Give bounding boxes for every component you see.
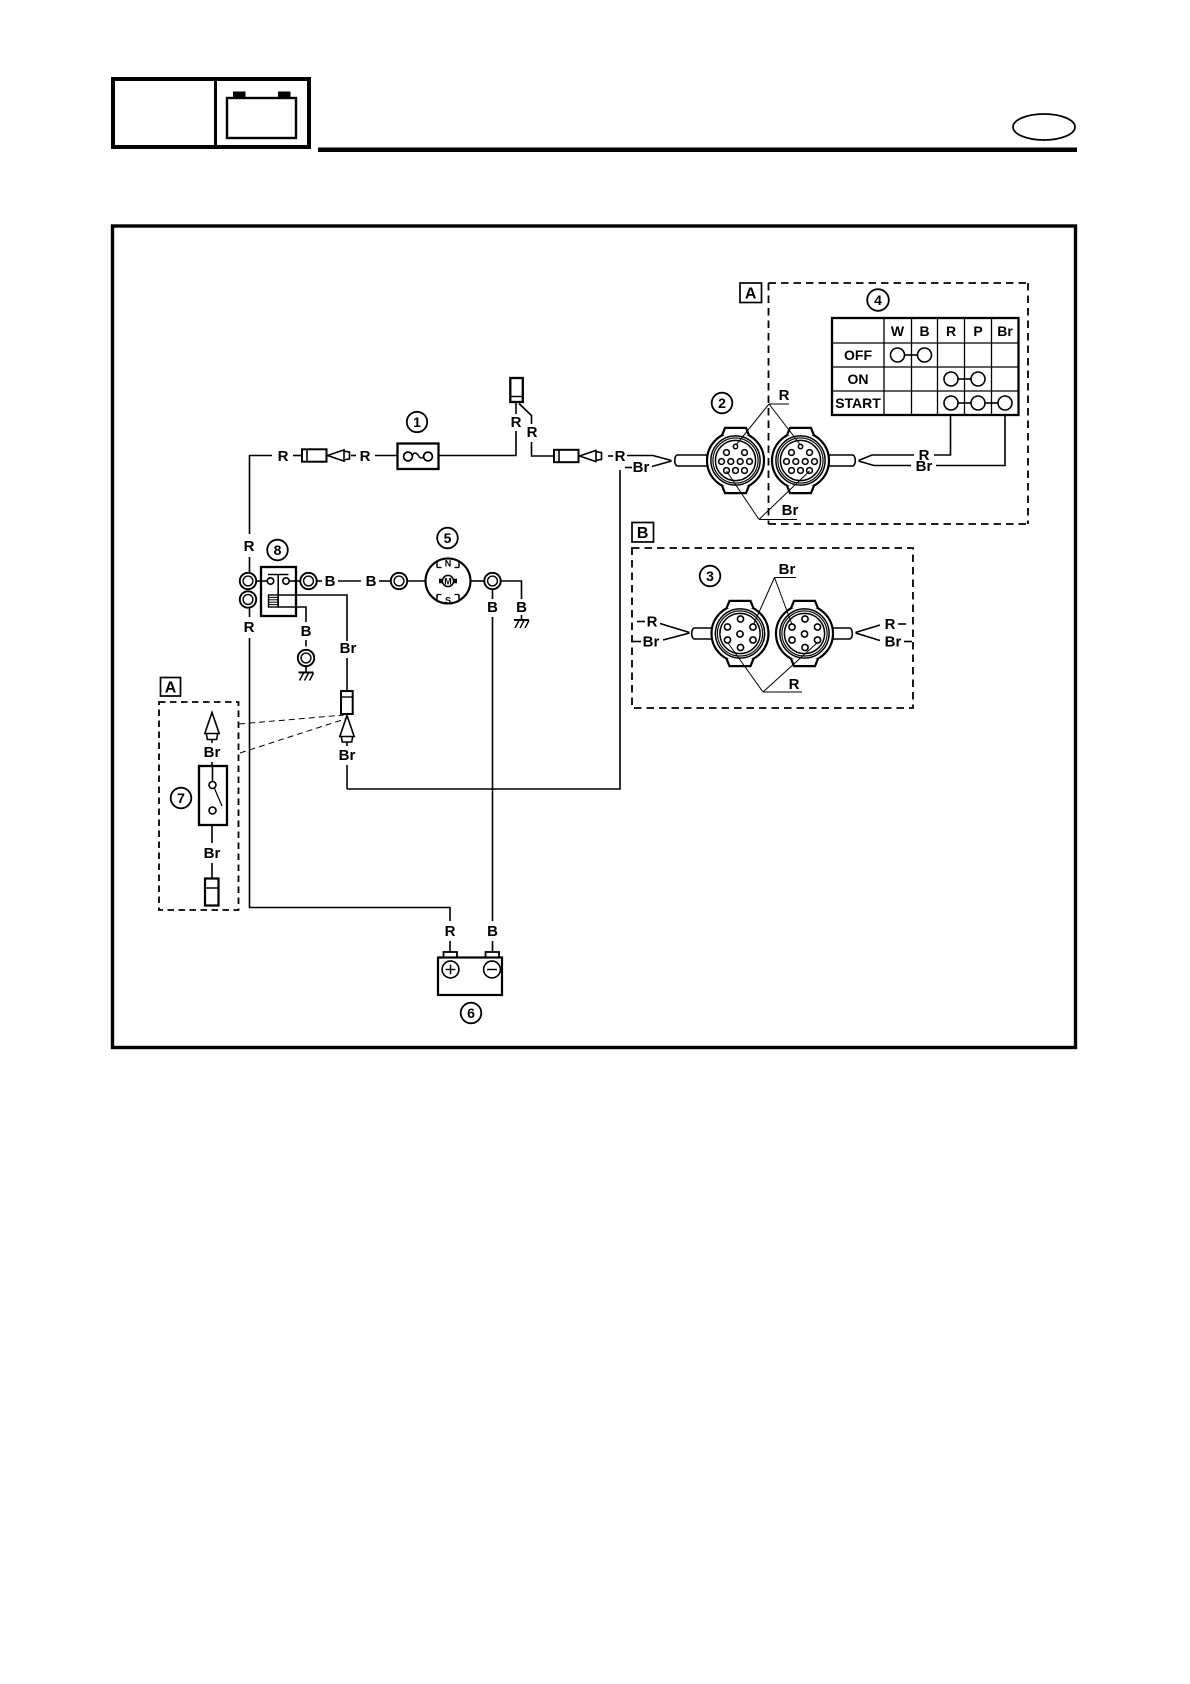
wire: ring to motor: [407, 580, 425, 582]
svg-text:B: B: [366, 573, 377, 590]
relay battery-side ring terminal lower: [240, 591, 256, 607]
fuse 1: [398, 444, 439, 470]
svg-text:R: R: [885, 616, 896, 633]
relay armature T bar: [268, 575, 289, 607]
table contact circles START row: [944, 396, 1012, 410]
detail male bullet (in box A): [205, 713, 219, 740]
wire: stub to ground: [521, 615, 523, 620]
connector 3 right body: [776, 601, 833, 666]
svg-text:R: R: [278, 448, 289, 465]
relay motor-side ring terminal: [300, 573, 316, 589]
svg-text:ON: ON: [848, 371, 869, 387]
table contact circles ON row: [944, 372, 985, 386]
ground symbol (motor): [514, 620, 529, 628]
relay internal contact wires: [261, 580, 296, 582]
wire: table R column down to arrow: [934, 415, 951, 455]
connector 3 right cable stub: [833, 628, 853, 639]
wire: motor to ring: [471, 580, 485, 582]
male bullet terminal (engine side): [340, 716, 354, 743]
dashed detail box A (right): [769, 283, 1029, 524]
wire: relay coil lower to ground stem: [278, 607, 306, 622]
leader Br to connector 3 top pins: [754, 578, 797, 625]
circled 3 label: [700, 566, 721, 587]
left arrow upper line of connector 3: [660, 624, 690, 633]
wire: ring to relay box: [256, 580, 261, 582]
circled 8 label: [267, 540, 288, 561]
connector 2 left body: [707, 428, 764, 493]
dashed detail box B: [632, 548, 913, 708]
svg-text:Br: Br: [633, 459, 650, 476]
connector 2 left cable stub: [675, 455, 708, 466]
svg-text:Br: Br: [885, 634, 902, 651]
switch table 4: [832, 318, 1019, 415]
wire: Br long vertical down to bottom run: [347, 470, 620, 789]
label box A (right): [740, 283, 762, 303]
left side Br dash of connector 3: [633, 641, 641, 643]
right arrow upper line of connector 3: [856, 625, 881, 633]
wire: connector to right riser (diagonal): [519, 404, 532, 425]
wire: fuse to riser junction: [439, 431, 517, 456]
wire: Br down to bottom run: [346, 765, 348, 789]
svg-text:4: 4: [874, 292, 882, 308]
detail female bullet (in box A): [205, 879, 219, 906]
svg-text:R: R: [779, 387, 790, 404]
right arrow lower line of connector 3: [856, 633, 881, 641]
circled 7 label: [171, 788, 192, 809]
svg-text:M: M: [444, 577, 452, 587]
svg-text:Br: Br: [339, 747, 356, 764]
table contact circles OFF row: [891, 348, 932, 362]
svg-text:8: 8: [274, 542, 282, 558]
wire dash: [338, 580, 361, 582]
main diagram border: [113, 226, 1076, 1048]
svg-text:R: R: [511, 414, 522, 431]
leader Br to connector 2 bottom pins: [727, 471, 810, 520]
wire dash: [379, 580, 391, 582]
svg-text:Br: Br: [340, 640, 357, 657]
wire: B run to battery minus: [492, 617, 494, 921]
svg-text:START: START: [835, 395, 881, 411]
wire below detail male bullet: [211, 740, 213, 744]
svg-text:Br: Br: [204, 845, 221, 862]
switch blade: [215, 789, 223, 807]
bullet connector pair (top-middle): [554, 450, 602, 462]
connector 3 left cable stub: [692, 628, 713, 639]
engine stop switch 7 box: [199, 766, 227, 825]
wire: B label to battery: [492, 941, 494, 953]
circled 5 label: [437, 528, 458, 549]
svg-text:A: A: [165, 680, 177, 697]
dashed detail box A (left): [159, 702, 239, 910]
wire dash before bullet: [293, 455, 302, 457]
ground symbol (relay): [299, 673, 314, 681]
wire dash after bullet: [608, 455, 613, 457]
battery 6: [438, 952, 502, 995]
dashed leader lower to bullet junction: [240, 719, 345, 753]
wire: R into harness arrow point: [627, 456, 672, 461]
bullet connector pair (top-left, R wire): [302, 449, 350, 461]
wire: Br arrow into right stub: [859, 461, 912, 466]
circled 1 label: [407, 412, 427, 432]
2P connector (top): [510, 378, 523, 402]
svg-text:2: 2: [718, 395, 726, 411]
wire: relay to motor-side ring: [296, 580, 300, 582]
wire below male bullet: [346, 742, 348, 746]
connector 3 left body: [712, 601, 769, 666]
dashed leader upper to bullet junction: [239, 715, 344, 724]
svg-text:B: B: [637, 525, 649, 542]
wire: ring to ground: [305, 666, 307, 672]
wire: Br corner and vertical down: [625, 467, 632, 469]
wire: motor B wire down to battery: [492, 589, 494, 599]
svg-text:R: R: [445, 923, 456, 940]
switch top stem: [212, 766, 214, 782]
svg-text:B: B: [516, 599, 527, 616]
wire: riser up to 2P connector: [515, 403, 517, 415]
wire: ring branch right to ground stem: [501, 581, 522, 599]
svg-text:R: R: [244, 538, 255, 555]
svg-text:R: R: [527, 424, 538, 441]
header outer box: [113, 79, 309, 147]
wire: Br to female bullet: [346, 658, 348, 691]
svg-text:R: R: [244, 619, 255, 636]
wire: Br to female bullet (box A): [211, 863, 213, 879]
svg-text:B: B: [487, 599, 498, 616]
leader R to connector 2 key pins: [736, 404, 801, 445]
wire: left vertical R run from top chain down to battery row: [250, 456, 451, 953]
wire: Br to switch box: [211, 762, 213, 766]
svg-text:S: S: [445, 596, 451, 606]
svg-text:P: P: [973, 323, 982, 339]
leader R to connector 3 bottom pins: [728, 643, 817, 692]
svg-text:3: 3: [706, 568, 714, 584]
starter relay 8 box: [261, 567, 296, 616]
left side R dash of connector 3: [637, 621, 645, 623]
relay battery-side ring terminal upper: [240, 573, 256, 589]
relay contact circles: [267, 578, 289, 584]
svg-text:Br: Br: [916, 458, 933, 475]
svg-text:R: R: [946, 323, 956, 339]
relay coil: [269, 595, 279, 607]
svg-text:Br: Br: [643, 634, 660, 651]
svg-text:Br: Br: [782, 502, 799, 519]
svg-text:B: B: [301, 623, 312, 640]
wire dash to ring: [305, 640, 307, 647]
wire: right riser down and right to bullet pair: [532, 442, 555, 456]
svg-text:1: 1: [413, 414, 421, 430]
wire: table Br column down to arrow: [936, 415, 1005, 466]
wire below switch box: [211, 825, 213, 843]
svg-text:Br: Br: [997, 323, 1013, 339]
top-right oval: [1013, 114, 1075, 140]
circled 2 label: [712, 393, 733, 414]
header divider: [214, 79, 217, 147]
label box A (left): [161, 678, 181, 697]
svg-text:W: W: [891, 323, 905, 339]
wire dash: [317, 580, 322, 582]
left arrow lower line of connector 3: [663, 633, 690, 640]
switch contacts: [209, 782, 216, 815]
right side Br dash of connector 3: [904, 641, 912, 643]
female bullet terminal (engine side): [341, 691, 353, 714]
svg-text:OFF: OFF: [844, 347, 872, 363]
svg-text:B: B: [919, 323, 929, 339]
wire: Br into harness arrow point: [652, 461, 672, 467]
starter motor 5: [426, 558, 471, 605]
svg-text:5: 5: [444, 530, 452, 546]
connector 2 right body: [772, 428, 829, 493]
svg-text:B: B: [325, 573, 336, 590]
header underline: [318, 148, 1077, 153]
wire: R arrow into right stub: [859, 455, 915, 461]
connector 2 right cable stub: [828, 455, 855, 466]
svg-text:A: A: [745, 286, 757, 303]
right side R dash of connector 3: [898, 623, 906, 625]
svg-text:R: R: [647, 614, 658, 631]
wire: relay coil upper to Br drop: [278, 595, 347, 641]
wire into fuse: [375, 455, 398, 457]
svg-text:6: 6: [467, 1005, 475, 1021]
motor output ring terminal: [484, 573, 500, 589]
svg-text:R: R: [360, 448, 371, 465]
circled 4 label: [867, 289, 889, 311]
svg-text:Br: Br: [204, 744, 221, 761]
label box B: [632, 523, 654, 543]
header battery icon: [227, 92, 296, 139]
svg-text:7: 7: [177, 790, 185, 806]
relay ground ring terminal: [298, 650, 314, 666]
svg-text:R: R: [789, 676, 800, 693]
circled 6 label: [461, 1003, 482, 1024]
svg-text:B: B: [487, 923, 498, 940]
motor cable ring terminal: [391, 573, 407, 589]
svg-text:N: N: [445, 559, 452, 569]
svg-text:R: R: [615, 448, 626, 465]
wire dash after bullet: [351, 455, 356, 457]
svg-text:Br: Br: [779, 561, 796, 578]
